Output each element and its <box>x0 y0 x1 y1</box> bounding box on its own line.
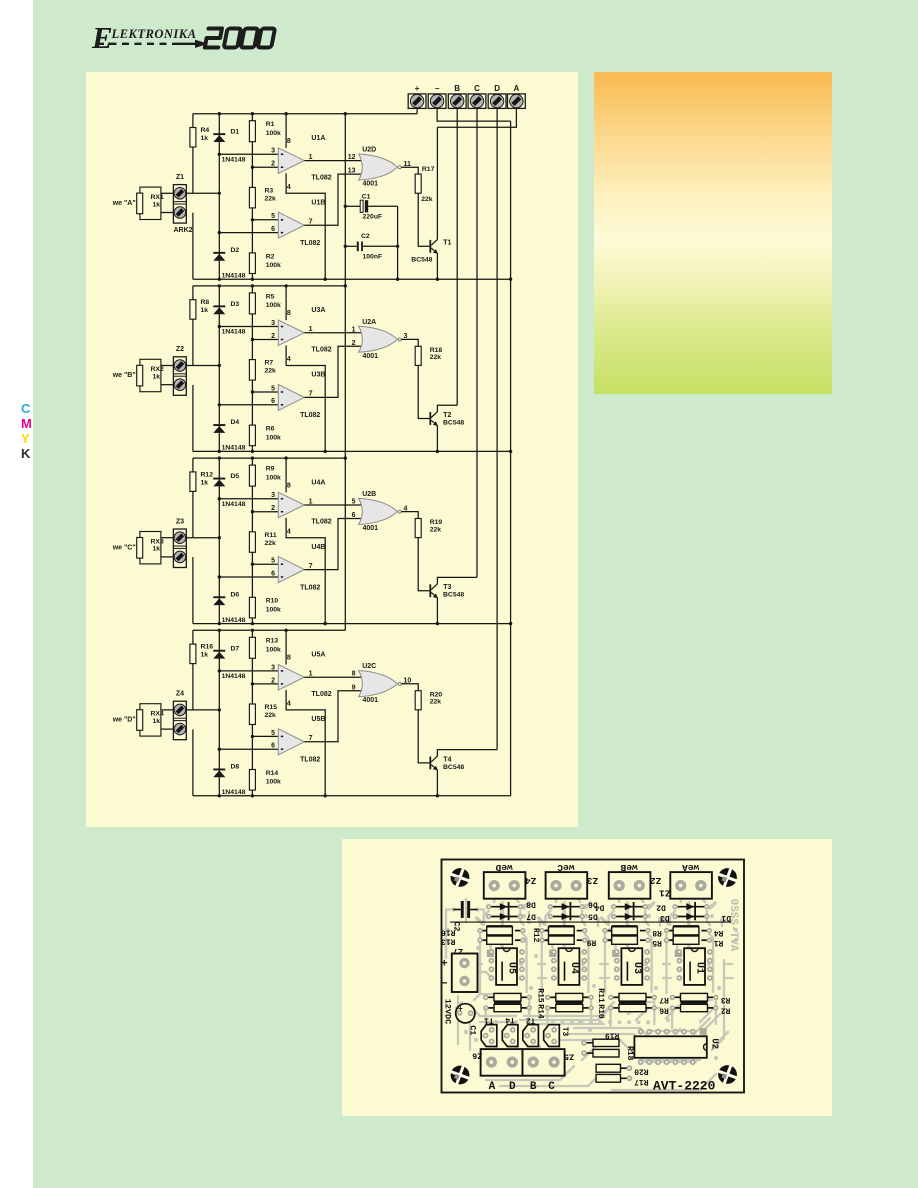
pcb pin1 pad U1 <box>675 950 682 957</box>
gate U2A bubble <box>398 338 401 341</box>
transistor T2 <box>429 412 438 426</box>
svg-text:TL082: TL082 <box>300 584 320 591</box>
junction T1 d-top <box>218 112 221 115</box>
svg-text:R2: R2 <box>721 1006 731 1015</box>
wire bottom rail channel T2 <box>193 450 511 452</box>
junction T4 d-bot <box>218 794 221 797</box>
wire Z3 screw1 stub <box>161 537 174 539</box>
wire top rail channel T4 <box>193 629 345 631</box>
svg-text:U4B: U4B <box>311 544 325 551</box>
resistor R4 <box>190 128 196 148</box>
junction T3 d-bot <box>218 622 221 625</box>
wire caps to bottom rail <box>397 206 399 279</box>
wire pin7 to gate T1 <box>304 174 361 225</box>
junction + rail channel C <box>344 456 347 459</box>
svg-text:3: 3 <box>271 148 275 155</box>
svg-text:A: A <box>489 1081 496 1093</box>
pcb yellow panel <box>342 839 832 1116</box>
svg-text:D8: D8 <box>231 764 240 771</box>
wire pin5 T1 <box>252 219 278 221</box>
svg-text:U3A: U3A <box>311 307 325 314</box>
resistor R9 <box>249 465 255 486</box>
svg-text:8: 8 <box>287 655 291 662</box>
svg-text:RX4: RX4 <box>151 711 164 718</box>
svg-text:R18: R18 <box>625 1046 634 1061</box>
junction T4 r-pin2 <box>251 682 254 685</box>
junction T4 d-pin3 <box>218 669 221 672</box>
pcb resistor R15 <box>483 993 532 1001</box>
resistor R10 <box>249 597 255 618</box>
svg-text:we "C": we "C" <box>112 544 136 551</box>
svg-text:C2: C2 <box>452 921 462 931</box>
transistor T3 <box>429 584 438 598</box>
capacitor C2 <box>345 242 397 252</box>
junction pin8 T2 <box>284 284 287 287</box>
svg-text:R10: R10 <box>266 598 279 605</box>
junction caps bottom <box>396 278 399 281</box>
wire Z2 screw2 stub <box>161 384 174 386</box>
colour bar M <box>21 416 32 431</box>
pcb connector Z7 <box>452 954 478 993</box>
wire R16 drop <box>192 630 194 710</box>
pcb pads Z4 <box>489 880 500 891</box>
wire pin6 T1 <box>219 232 278 234</box>
svg-text:we "B": we "B" <box>112 372 136 379</box>
pcb resistor R11 <box>545 993 594 1001</box>
svg-text:R11: R11 <box>596 988 605 1003</box>
svg-text:R8: R8 <box>652 928 662 937</box>
pcb capacitor C2 <box>453 901 477 918</box>
svg-text:D2: D2 <box>231 247 240 254</box>
junction - bus channel C <box>509 622 512 625</box>
svg-text:22k: 22k <box>421 196 433 203</box>
resistor R20 <box>415 691 421 710</box>
pcb IC U5 <box>496 948 517 985</box>
junction T3 d-pin6 <box>218 575 221 578</box>
pcb transistor T3 <box>544 1025 560 1047</box>
pcb IC U4 <box>559 948 580 985</box>
svg-text:1N4148: 1N4148 <box>222 273 246 280</box>
wire Z3 screw2 stub <box>161 556 174 558</box>
op-amp U3A <box>278 320 304 345</box>
junction T2 d-z <box>218 364 221 367</box>
wire resistor line T3 <box>251 458 253 623</box>
svg-text:D7: D7 <box>231 645 240 652</box>
wire pin3 T4 <box>219 670 278 672</box>
svg-text:100k: 100k <box>266 262 281 269</box>
wire resistor line T4 <box>251 630 253 796</box>
svg-text:R3: R3 <box>265 188 274 195</box>
svg-text:D1: D1 <box>231 129 240 136</box>
wire R4 drop <box>192 114 194 194</box>
gate U2D <box>359 154 398 180</box>
connector Z1 <box>173 185 186 224</box>
svg-text:D3: D3 <box>660 913 670 922</box>
resistor RX1 <box>137 193 143 214</box>
svg-text:1N4148: 1N4148 <box>222 617 246 624</box>
pcb resistor R8 <box>602 925 650 935</box>
pcb pin1 pad U5 <box>487 950 494 957</box>
wire pin2 T3 <box>252 511 278 513</box>
pcb mounting mark 2 <box>714 864 741 891</box>
wire emitter T1 <box>436 253 438 279</box>
svg-text:T3: T3 <box>560 1027 569 1037</box>
svg-text:U2C: U2C <box>362 663 376 670</box>
wire pin2 T1 <box>252 166 278 168</box>
svg-text:100nF: 100nF <box>363 253 383 260</box>
svg-text:1k: 1k <box>201 652 209 659</box>
pcb IC U1 <box>684 948 705 985</box>
svg-text:1: 1 <box>309 498 313 505</box>
svg-text:3: 3 <box>271 664 275 671</box>
colour bar Y <box>21 431 30 446</box>
op-amp U4B <box>278 557 304 583</box>
pcb pads Z6 Z5 <box>486 1057 497 1068</box>
svg-text:E: E <box>91 20 113 55</box>
wire pin1 to gate T1 <box>304 160 361 162</box>
svg-text:22k: 22k <box>265 196 277 203</box>
wire pin4 T3 <box>286 518 325 624</box>
pcb resistor R1 <box>664 936 712 944</box>
svg-text:12VDC: 12VDC <box>442 999 452 1025</box>
pcb vias <box>446 904 738 1060</box>
svg-text:R4: R4 <box>201 127 210 134</box>
svg-text:D: D <box>509 1081 516 1093</box>
svg-text:5: 5 <box>271 730 275 737</box>
svg-text:3: 3 <box>271 320 275 327</box>
svg-text:R7: R7 <box>659 995 669 1004</box>
wire pin4 T2 <box>286 346 325 452</box>
svg-text:weC: weC <box>557 862 574 873</box>
wire screw1 to diode line T1 <box>186 192 219 194</box>
pcb pads U4 <box>551 949 587 981</box>
wire pin3 T2 <box>219 326 278 328</box>
resistor RX2 <box>137 365 143 386</box>
svg-text:R12: R12 <box>531 928 540 943</box>
junction + rail channel B <box>344 284 347 287</box>
svg-text:1N4148: 1N4148 <box>222 329 246 336</box>
resistor R2 <box>249 253 255 274</box>
wire gate out T1 <box>401 167 418 174</box>
wire collector T3 <box>437 577 477 584</box>
svg-text:4: 4 <box>287 701 291 708</box>
resistor R1 <box>249 121 255 142</box>
wire - terminal to minus bus <box>437 108 511 121</box>
junction T3 r-pin5 <box>251 563 254 566</box>
wire pin6 T3 <box>219 576 278 578</box>
svg-text:R5: R5 <box>266 293 275 300</box>
svg-text:22k: 22k <box>430 526 442 533</box>
pcb pin1 pad U3 <box>612 950 619 957</box>
diode D5 <box>213 478 225 487</box>
svg-text:TL082: TL082 <box>311 519 331 526</box>
junction pin4 T1 <box>324 278 327 281</box>
wire pin6 T4 <box>219 748 278 750</box>
svg-text:Z6: Z6 <box>472 1051 482 1061</box>
svg-text:C1: C1 <box>468 1025 478 1035</box>
svg-text:TL082: TL082 <box>311 347 331 354</box>
pcb diode D3 <box>611 913 648 920</box>
svg-text:13: 13 <box>348 168 356 175</box>
junction T2 r-pin2 <box>251 338 254 341</box>
wire emitter T2 <box>436 426 438 452</box>
svg-text:R13: R13 <box>266 638 279 645</box>
pcb diode cathode bar Z3 <box>570 902 572 920</box>
wire diode line T3 <box>218 458 220 623</box>
pcb diode D5 <box>548 913 585 920</box>
pcb diode D1 <box>672 913 709 920</box>
wire emitter T4 <box>436 770 438 796</box>
svg-text:R15: R15 <box>265 704 278 711</box>
wire pin7 to gate T4 <box>304 691 361 742</box>
svg-text:D4: D4 <box>595 903 605 912</box>
op-amp U1B <box>278 212 304 238</box>
svg-text:TL082: TL082 <box>300 412 320 419</box>
svg-text:R9: R9 <box>587 938 597 947</box>
gate U2A <box>359 326 398 352</box>
svg-text:2: 2 <box>271 333 275 340</box>
svg-text:T3: T3 <box>443 584 451 591</box>
connector terminal block <box>408 84 525 108</box>
connector Z2 <box>173 357 186 396</box>
wire diode line T4 <box>218 630 220 796</box>
svg-text:220uF: 220uF <box>363 214 383 221</box>
svg-text:100k: 100k <box>266 302 281 309</box>
wire R12 drop <box>192 458 194 538</box>
resistor R11 <box>249 532 255 553</box>
junction C2 left <box>344 245 347 248</box>
wire base T3 <box>418 538 429 591</box>
svg-text:D7: D7 <box>526 911 536 920</box>
diode D3 <box>213 305 225 314</box>
wire gate out T4 <box>401 684 418 691</box>
resistor R18 <box>415 346 421 365</box>
op-amp U5A <box>278 665 304 690</box>
wire pin2 T2 <box>252 339 278 341</box>
svg-text:8: 8 <box>287 138 291 145</box>
junction C1 left <box>344 205 347 208</box>
junction T1 d-pin6 <box>218 231 221 234</box>
wire input loop RX2 <box>140 359 161 391</box>
wire pin1 to gate T2 <box>304 332 361 334</box>
svg-text:Z5: Z5 <box>564 1051 574 1061</box>
svg-text:R20: R20 <box>634 1066 649 1075</box>
svg-text:R10: R10 <box>596 1004 605 1019</box>
svg-text:U4: U4 <box>568 962 579 974</box>
junction pin8 T3 <box>284 456 287 459</box>
resistor R7 <box>249 360 255 381</box>
svg-text:C: C <box>474 84 480 93</box>
svg-text:Z1: Z1 <box>176 174 184 181</box>
svg-text:8: 8 <box>287 310 291 317</box>
pcb connector Z4 <box>484 872 526 899</box>
resistor R12 <box>190 472 196 492</box>
svg-text:R14: R14 <box>535 1004 544 1019</box>
wire resistor line T1 <box>251 114 253 280</box>
wire screw1 to diode line T2 <box>186 365 219 367</box>
svg-text:4: 4 <box>287 528 291 535</box>
svg-text:AVT-2220: AVT-2220 <box>653 1079 716 1094</box>
svg-text:1N4148: 1N4148 <box>222 157 246 164</box>
svg-text:R5: R5 <box>652 938 662 947</box>
svg-text:BC548: BC548 <box>443 592 464 599</box>
svg-text:9: 9 <box>352 684 356 691</box>
svg-text:R18: R18 <box>430 347 443 354</box>
diode D7 <box>213 650 225 659</box>
wire pin1 to gate T4 <box>304 676 361 678</box>
wire pin8 T3 <box>285 458 287 492</box>
wire top rail channel T3 <box>193 457 345 459</box>
resistor R5 <box>249 293 255 314</box>
junction pin4 T4 <box>324 794 327 797</box>
pcb resistor R5 <box>602 936 650 944</box>
svg-text:weA: weA <box>682 862 699 873</box>
wire pin7 to gate T3 <box>304 519 361 570</box>
svg-text:D8: D8 <box>526 900 536 909</box>
svg-text:Z1: Z1 <box>659 887 671 898</box>
svg-text:B: B <box>530 1081 537 1093</box>
connector Z4 <box>173 701 186 740</box>
junction T3 d-pin3 <box>218 497 221 500</box>
pcb connector Z1 <box>670 872 712 899</box>
resistor R19 <box>415 519 421 538</box>
wire D bus vertical <box>496 108 498 749</box>
pcb resistor R10 <box>545 1002 594 1012</box>
svg-text:22k: 22k <box>265 712 277 719</box>
pcb IC U2 <box>634 1036 706 1058</box>
pcb diode D2 <box>672 903 709 910</box>
wire R8 drop <box>192 286 194 366</box>
wire collector T4 <box>437 750 497 757</box>
svg-text:TL082: TL082 <box>300 757 320 764</box>
svg-text:R9: R9 <box>266 466 275 473</box>
svg-text:U5A: U5A <box>311 652 325 659</box>
resistor R8 <box>190 300 196 320</box>
svg-text:U1: U1 <box>694 962 705 974</box>
pcb resistor R12 <box>539 925 587 935</box>
pcb diode D7 <box>486 913 523 920</box>
junction T4 r-pin5 <box>251 735 254 738</box>
wire pin5 T3 <box>252 563 278 565</box>
svg-text:C: C <box>548 1081 555 1093</box>
resistor RX4 <box>137 710 143 731</box>
svg-text:Z4: Z4 <box>176 691 184 698</box>
junction + rail channel A <box>344 112 347 115</box>
svg-text:100k: 100k <box>266 607 281 614</box>
wire resistor line T2 <box>251 286 253 452</box>
wire collector T2 <box>437 405 457 412</box>
junction emitter T4 <box>436 794 439 797</box>
svg-text:4001: 4001 <box>363 697 379 704</box>
pcb resistor R3 <box>670 993 719 1001</box>
junction T3 d-z <box>218 536 221 539</box>
logo 2000 digits <box>205 29 275 48</box>
svg-text:U5B: U5B <box>311 716 325 723</box>
wire Z4 screw1 stub <box>161 709 174 711</box>
wire gate out T2 <box>401 339 418 346</box>
svg-text:T4: T4 <box>443 756 451 763</box>
svg-text:−: − <box>435 84 440 93</box>
svg-text:U2B: U2B <box>362 491 376 498</box>
svg-text:1N4148: 1N4148 <box>222 789 246 796</box>
pcb resistor R6 <box>608 1002 657 1012</box>
junction T2 d-bot <box>218 450 221 453</box>
junction T3 r-pin2 <box>251 510 254 513</box>
svg-text:U1B: U1B <box>311 199 325 206</box>
svg-text:T2: T2 <box>526 1015 536 1024</box>
pcb mounting mark 4 <box>714 1061 741 1088</box>
pcb board outline <box>442 860 745 1093</box>
junction - bus channel A <box>509 278 512 281</box>
pcb resistor R7 <box>608 993 657 1001</box>
wire terminal A to T1 collector <box>437 108 516 127</box>
svg-text:R17: R17 <box>634 1077 649 1086</box>
svg-text:1k: 1k <box>201 307 209 314</box>
svg-text:100k: 100k <box>266 474 281 481</box>
pcb diode D4 <box>611 903 648 910</box>
svg-text:R8: R8 <box>201 299 210 306</box>
wire left bottom vertical T4 <box>192 729 194 796</box>
wire pin8 T1 <box>285 114 287 148</box>
svg-text:+: + <box>415 84 420 93</box>
resistor R16 <box>190 644 196 664</box>
svg-text:8: 8 <box>287 482 291 489</box>
pcb transistor T1 <box>481 1025 497 1047</box>
wire pin8 T2 <box>285 286 287 320</box>
svg-text:R6: R6 <box>659 1006 669 1015</box>
svg-text:0SSS-TVA: 0SSS-TVA <box>727 899 739 952</box>
svg-text:2: 2 <box>271 505 275 512</box>
pcb pads U3 <box>614 949 650 981</box>
resistor R13 <box>249 637 255 658</box>
svg-text:RX2: RX2 <box>151 366 164 373</box>
svg-text:R13: R13 <box>441 936 456 945</box>
junction T1 r-bot <box>251 278 254 281</box>
svg-text:U2: U2 <box>709 1038 719 1049</box>
svg-text:D5: D5 <box>231 473 240 480</box>
pcb thick traces <box>477 903 715 958</box>
logo dashed arrow <box>97 40 208 48</box>
resistor R14 <box>249 770 255 791</box>
gate U2C <box>359 671 398 697</box>
pcb resistor R19 body <box>581 1039 619 1046</box>
pcb silkscreen line <box>450 921 731 923</box>
svg-text:1N4148: 1N4148 <box>222 445 246 452</box>
svg-text:5: 5 <box>271 213 275 220</box>
wire Z2 screw1 stub <box>161 365 174 367</box>
svg-text:weB: weB <box>620 862 637 873</box>
pcb resistor R17 body <box>596 1074 632 1082</box>
junction T1 r-top <box>251 112 254 115</box>
svg-text:6: 6 <box>271 226 275 233</box>
pcb pads Z1 <box>675 880 686 891</box>
svg-text:R15: R15 <box>535 988 544 1003</box>
svg-text:U2D: U2D <box>362 147 376 154</box>
svg-text:4: 4 <box>287 184 291 191</box>
pcb resistor R14 <box>483 1002 532 1012</box>
svg-text:7: 7 <box>309 735 313 742</box>
resistor R15 <box>249 704 255 725</box>
pcb connector Z6 <box>481 1049 523 1076</box>
wire Z4 screw2 stub <box>161 728 174 730</box>
svg-text:BC548: BC548 <box>411 257 432 264</box>
pcb diode D8 <box>486 903 523 910</box>
junction emitter T1 <box>436 278 439 281</box>
op-amp U4A <box>278 492 304 517</box>
wire B bus vertical <box>456 108 458 405</box>
wire left bottom vertical T1 <box>192 213 194 280</box>
pcb resistor R18 body <box>581 1049 619 1057</box>
